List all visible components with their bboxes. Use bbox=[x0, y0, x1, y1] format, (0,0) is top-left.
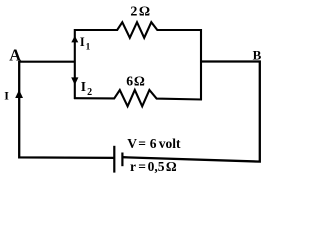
svg-text:6: 6 bbox=[150, 136, 157, 151]
svg-text:A: A bbox=[9, 45, 21, 64]
svg-text:Ω: Ω bbox=[166, 159, 177, 174]
svg-text:Ω: Ω bbox=[134, 74, 145, 89]
svg-text:Ω: Ω bbox=[139, 5, 150, 20]
svg-text:volt: volt bbox=[159, 136, 181, 151]
svg-text:I: I bbox=[80, 35, 85, 49]
svg-text:=: = bbox=[138, 136, 146, 151]
svg-text:r: r bbox=[130, 159, 136, 174]
svg-text:2: 2 bbox=[130, 5, 137, 20]
svg-text:1: 1 bbox=[86, 43, 91, 53]
svg-text:=: = bbox=[138, 159, 146, 174]
svg-text:B: B bbox=[253, 48, 262, 63]
svg-text:2: 2 bbox=[87, 87, 92, 98]
svg-text:I: I bbox=[81, 79, 86, 94]
svg-text:6: 6 bbox=[126, 74, 133, 89]
svg-text:0,5: 0,5 bbox=[148, 159, 165, 174]
svg-text:V: V bbox=[127, 136, 137, 151]
svg-text:I: I bbox=[4, 89, 9, 103]
